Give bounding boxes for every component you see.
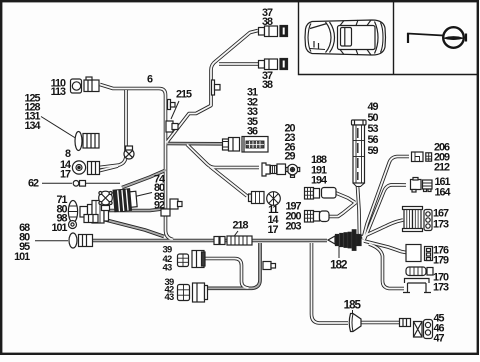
svg-text:62: 62 bbox=[28, 178, 39, 190]
svg-text:101: 101 bbox=[51, 222, 67, 234]
svg-text:194: 194 bbox=[311, 175, 327, 187]
svg-text:185: 185 bbox=[344, 298, 362, 311]
svg-text:92: 92 bbox=[154, 200, 165, 212]
svg-text:173: 173 bbox=[433, 219, 449, 231]
svg-text:113: 113 bbox=[51, 86, 66, 98]
svg-text:47: 47 bbox=[433, 333, 444, 345]
svg-text:59: 59 bbox=[367, 145, 378, 157]
svg-text:218: 218 bbox=[232, 220, 248, 232]
svg-text:182: 182 bbox=[330, 259, 347, 272]
svg-text:36: 36 bbox=[247, 126, 258, 138]
svg-text:212: 212 bbox=[434, 162, 450, 174]
svg-text:173: 173 bbox=[433, 281, 449, 293]
svg-text:203: 203 bbox=[285, 221, 301, 233]
svg-text:29: 29 bbox=[284, 151, 295, 163]
svg-text:134: 134 bbox=[24, 120, 40, 132]
svg-text:43: 43 bbox=[162, 262, 172, 273]
svg-text:43: 43 bbox=[164, 291, 174, 302]
svg-text:164: 164 bbox=[434, 187, 450, 199]
svg-text:38: 38 bbox=[262, 79, 273, 91]
svg-text:215: 215 bbox=[176, 89, 192, 101]
svg-text:17: 17 bbox=[267, 224, 278, 236]
svg-text:17: 17 bbox=[60, 169, 71, 181]
svg-text:179: 179 bbox=[433, 254, 449, 266]
svg-text:38: 38 bbox=[262, 16, 273, 28]
svg-text:101: 101 bbox=[14, 251, 30, 263]
